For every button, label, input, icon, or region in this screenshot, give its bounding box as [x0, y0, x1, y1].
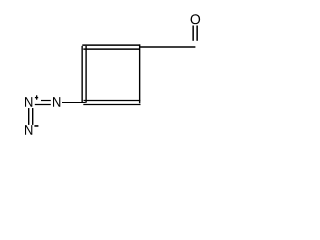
ring right single bond: [139, 44, 141, 103]
chemical structure diagram: azide + ring + aldehyde: [0, 0, 224, 150]
N1=N2 double bond: lower line: [35, 104, 51, 106]
ring left double bond: outer line: [81, 46, 83, 102]
plus sign of N1+ : horizontal arm: [35, 97, 38, 99]
bond N2 to ring C1: [62, 102, 86, 104]
plus sign of N1+ : vertical arm: [36, 95, 38, 99]
minus sign of N3-: [34, 125, 38, 127]
N1=N3 vertical double bond: right line: [32, 108, 34, 125]
C=O double bond: right line: [196, 26, 198, 41]
atom label O (aldehyde): [191, 14, 201, 24]
ring bottom double bond: upper line: [84, 100, 141, 102]
N1=N2 double bond: upper line: [41, 100, 51, 102]
atom label N3 (N-): [25, 125, 32, 135]
atom label N2: [53, 97, 60, 107]
ring top double bond: outer line: [82, 44, 140, 46]
ring left double bond: inner line: [85, 46, 87, 103]
ring top double bond: inner line: [83, 48, 139, 50]
ring bottom double bond: lower line: [83, 104, 140, 106]
C=O double bond: left line: [192, 26, 194, 41]
bond ring C3 to aldehyde carbon: [140, 46, 196, 48]
atom label N1 (N+): [25, 97, 32, 107]
N1=N3 vertical double bond: left line: [28, 108, 30, 125]
